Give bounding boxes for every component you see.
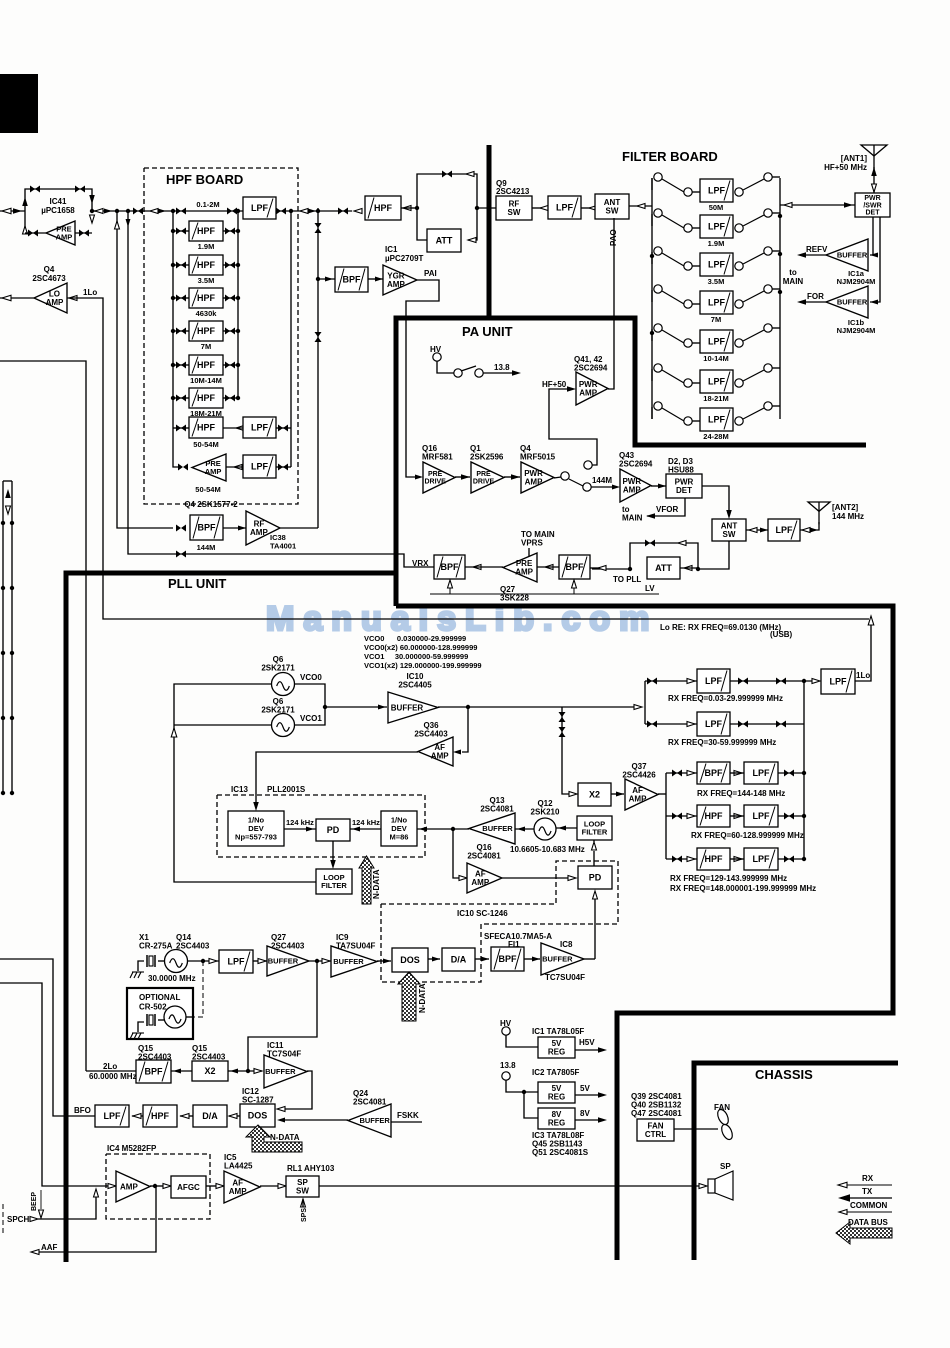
wire Q12 to buffer Q13 xyxy=(515,828,534,830)
label IC13 xyxy=(231,785,248,794)
wire Q16 to PD right xyxy=(502,877,570,879)
label H5V xyxy=(579,1038,595,1047)
junction right rail top xyxy=(236,209,240,213)
buffer IC1b NJM2904M xyxy=(826,286,868,318)
switch contact right-up 24-28M xyxy=(764,402,772,410)
loop filter right xyxy=(577,816,612,840)
svg-text:IC13: IC13 xyxy=(231,785,248,794)
svg-text:DRIVE: DRIVE xyxy=(424,479,446,486)
wire HV to 5VREG xyxy=(506,1035,538,1047)
label D2 D3 HSU88 xyxy=(668,457,694,475)
svg-text:2Lo: 2Lo xyxy=(103,1062,117,1071)
diode row5 a xyxy=(672,856,682,863)
fb left rail dot 1 xyxy=(650,254,654,258)
svg-text:LPF: LPF xyxy=(556,203,574,213)
oscillator Q12 xyxy=(534,818,556,840)
svg-text:(USB): (USB) xyxy=(770,630,793,639)
voltage regulator 8V REG xyxy=(538,1108,575,1129)
open arrow into SPSW xyxy=(278,1184,286,1189)
switch lever left 7M xyxy=(662,291,684,304)
wire ANT1 down xyxy=(873,167,875,193)
open arrow at rail PWRSWR wire xyxy=(784,203,792,208)
wire VPRS tick xyxy=(528,548,530,556)
diode left 1.9M xyxy=(176,228,186,235)
svg-text:AMP: AMP xyxy=(579,389,597,398)
label USB xyxy=(770,630,793,639)
open arrow row4 mid xyxy=(734,814,742,819)
diode ATT bypass xyxy=(442,171,452,178)
wire fb row left 18-21M xyxy=(651,369,653,381)
svg-text:HPF BOARD: HPF BOARD xyxy=(166,172,243,187)
svg-text:AMP: AMP xyxy=(629,795,647,804)
label Q16 MRF581 xyxy=(422,444,453,462)
label legend DATA BUS xyxy=(848,1218,889,1227)
wire IC8 out corner xyxy=(584,958,595,960)
filled arrow into PWR DET xyxy=(658,484,666,489)
label BEEP xyxy=(31,1192,38,1211)
svg-text:N-DATA: N-DATA xyxy=(270,1133,300,1142)
wire X2 to Q37 xyxy=(611,793,624,795)
wire row 10M-14M xyxy=(173,364,189,366)
open arrow row5 mid xyxy=(734,857,742,862)
wire fb row left 10-14M xyxy=(651,329,653,341)
attenuator ATT xyxy=(427,229,461,252)
label 0.1-2M xyxy=(196,200,219,209)
open arrow row5 xyxy=(687,857,695,862)
svg-text:IC8: IC8 xyxy=(560,940,573,949)
wire 13.8 down to 8VREG xyxy=(524,1092,538,1118)
open arrow into IC9 xyxy=(322,959,330,964)
low-pass filter LPF 24-28M xyxy=(700,408,733,431)
label TO PLL xyxy=(613,575,641,584)
PA UNIT boundary xyxy=(396,318,866,606)
open arrow right of ANTSW2 xyxy=(749,528,757,533)
open arrow into PD bottom xyxy=(593,891,598,899)
switch lever right 7M xyxy=(743,291,764,302)
label legend COMMON xyxy=(850,1201,888,1210)
wire DOS to DA ic12 xyxy=(229,1115,240,1117)
wire HF+50 feed xyxy=(549,389,597,465)
pre-amp IC41 xyxy=(46,221,75,245)
open arrow down on IC41 loop right xyxy=(90,215,95,223)
high-pass filter HPF 50-54M xyxy=(189,417,223,438)
svg-text:50-54M: 50-54M xyxy=(195,485,220,494)
wire Q36 out to DEV xyxy=(256,752,418,803)
low-pass filter LPF 1Lo xyxy=(821,669,855,694)
junction rail 3.5M xyxy=(171,263,175,267)
wire DA to FI1 xyxy=(475,958,489,960)
wire Q43 to PWRDET xyxy=(651,485,666,487)
wire row right 4630k xyxy=(223,297,238,299)
svg-text:CR-275A: CR-275A xyxy=(139,942,173,951)
switch contact right-dn 24-28M xyxy=(735,417,743,425)
wire row 4630k xyxy=(173,297,189,299)
svg-text:10M-14M: 10M-14M xyxy=(190,376,222,385)
svg-text:FILTER: FILTER xyxy=(582,828,608,837)
label IC9 TA7SU04F xyxy=(336,933,376,951)
switch lever left 3.5M xyxy=(662,253,684,266)
filled arrow main row in2 xyxy=(158,209,166,214)
svg-text:NJM2904M: NJM2904M xyxy=(837,277,876,286)
buffer Q27 pll xyxy=(267,946,309,976)
svg-text:AMP: AMP xyxy=(120,1182,138,1191)
low-pass filter LPF 18-21M xyxy=(700,370,733,393)
filled arrow into Q36 xyxy=(453,750,461,755)
svg-text:1.9M: 1.9M xyxy=(708,239,725,248)
open arrow into HPF bfo xyxy=(181,1114,189,1119)
svg-text:8V: 8V xyxy=(580,1109,590,1118)
diode before HPF mid xyxy=(338,208,348,215)
open arrow att2 bypass xyxy=(678,541,686,546)
svg-text:VCO0(x2) 60.000000-128.999999: VCO0(x2) 60.000000-128.999999 xyxy=(364,643,477,652)
svg-text:HPF: HPF xyxy=(151,1111,170,1121)
svg-text:MAIN: MAIN xyxy=(622,514,643,523)
svg-text:OPTIONAL: OPTIONAL xyxy=(139,993,180,1002)
svg-text:30.0000 MHz: 30.0000 MHz xyxy=(148,974,196,983)
svg-text:FILTER: FILTER xyxy=(321,881,347,890)
open arrow into LPF bfo xyxy=(133,1114,141,1119)
switch contact left-dn 1.9M xyxy=(684,224,692,232)
svg-text:BPF: BPF xyxy=(705,768,724,778)
label N-DATA ic13 xyxy=(372,869,381,899)
label Q9 2SC4213 xyxy=(496,179,530,196)
open arrow into BPF pll side xyxy=(598,566,606,571)
frequency doubler X2 2Lo xyxy=(192,1061,228,1081)
pre-amp Q27 3SK228 xyxy=(503,553,537,582)
switch contact left-up 7M xyxy=(654,285,662,293)
svg-text:1.9M: 1.9M xyxy=(198,242,215,251)
label IC11 TC7S04F xyxy=(267,1041,301,1059)
svg-text:IC10 SC-1246: IC10 SC-1246 xyxy=(457,909,508,918)
wire 5V out xyxy=(575,1094,600,1096)
pre-amp Q4 2SK1577-2 xyxy=(192,454,226,481)
wire row 18M-21M xyxy=(173,397,189,399)
junction right rail 3.5M xyxy=(236,263,240,267)
junction ref out xyxy=(315,959,319,963)
open arrow into DOS ic12 upper xyxy=(277,1107,285,1112)
switch lever left 1.9M xyxy=(662,215,684,228)
label IC38 TA4001 xyxy=(270,533,296,550)
open arrow up on branch x117 xyxy=(115,221,120,229)
svg-text:7M: 7M xyxy=(201,342,211,351)
wire 13.8 out xyxy=(483,372,514,374)
wire fb row left 24-28M xyxy=(651,407,653,419)
label 144M pa xyxy=(592,476,612,485)
svg-text:2SC4673: 2SC4673 xyxy=(32,274,66,283)
switch contact pa a xyxy=(454,369,462,377)
filled arrow down loop filter 13 xyxy=(330,860,336,869)
open arrow row4 xyxy=(687,814,695,819)
wire LPF out xyxy=(276,210,352,212)
label fb 24-28M xyxy=(703,432,728,441)
diode row2 a xyxy=(647,721,657,728)
svg-text:HPF: HPF xyxy=(197,226,216,236)
open arrow main row in xyxy=(150,209,158,214)
wire Q4 out to relay xyxy=(554,477,561,478)
wire row4 mid xyxy=(730,815,744,817)
filled arrow 13.8 xyxy=(512,370,521,376)
svg-text:LPF: LPF xyxy=(708,260,726,270)
svg-text:N-DATA: N-DATA xyxy=(418,983,427,1013)
band-pass filter BPF vrx xyxy=(434,555,465,579)
wire row4 left xyxy=(666,815,697,817)
filled arrow down on IC41 loop right xyxy=(89,195,95,204)
label 50-54M b xyxy=(195,485,220,494)
filled arrow on main line x106 xyxy=(104,209,112,214)
label fb 18-21M xyxy=(703,394,728,403)
svg-text:Q4: Q4 xyxy=(44,265,55,274)
label Q13 2SC4081 xyxy=(480,796,514,814)
diode left 7M xyxy=(176,328,186,335)
fb right rail dot 1 xyxy=(778,214,782,218)
filled arrow to ANT2 xyxy=(810,528,818,533)
wire Q1 to Q4pa xyxy=(504,476,520,478)
open arrow row3 mid xyxy=(734,771,742,776)
IC10 SC-1246 dashed outline xyxy=(381,861,618,982)
svg-text:2SK210: 2SK210 xyxy=(531,808,560,817)
open arrow into IC4 amp xyxy=(108,1184,116,1189)
left bus dot c1 xyxy=(1,651,5,655)
audio amp IC5 xyxy=(224,1171,260,1203)
buffer IC11 xyxy=(264,1055,307,1088)
wire IC11 out to DOS ic12 xyxy=(283,1071,312,1109)
filled arrow into X2 2Lo xyxy=(230,1069,238,1074)
svg-text:IC1: IC1 xyxy=(385,245,398,254)
label HF+50 MHz xyxy=(824,163,867,172)
svg-text:2SC4403: 2SC4403 xyxy=(192,1053,226,1062)
svg-text:VCO1(x2) 129.000000-199.999999: VCO1(x2) 129.000000-199.999999 xyxy=(364,661,482,670)
low-pass filter LPF 50-54M xyxy=(243,417,276,438)
svg-text:RX FREQ=144-148 MHz: RX FREQ=144-148 MHz xyxy=(697,789,785,798)
svg-text:10.6605-10.683 MHz: 10.6605-10.683 MHz xyxy=(510,845,585,854)
fan controller FAN CTRL xyxy=(637,1119,674,1141)
terminal 13.8 reg xyxy=(502,1072,510,1080)
svg-text:LPF: LPF xyxy=(708,415,726,425)
svg-text:HPF: HPF xyxy=(197,423,216,433)
svg-text:FOR: FOR xyxy=(807,292,824,301)
svg-text:CHASSIS: CHASSIS xyxy=(755,1067,813,1082)
label 60.0000 MHz xyxy=(89,1072,137,1081)
switch contact right-dn 10-14M xyxy=(735,339,743,347)
label AAF xyxy=(41,1243,58,1252)
label RX FREQ row1 xyxy=(668,694,783,703)
antenna switch ANT SW pa xyxy=(712,519,746,541)
legend COMMON arrow xyxy=(839,1210,847,1215)
label Q15 2SC4403 a xyxy=(138,1044,172,1062)
label IC1 TA78L05F xyxy=(532,1027,584,1036)
wire row right 7M xyxy=(223,330,238,332)
junction x318 BPF feed xyxy=(316,277,320,281)
wire att2 right link xyxy=(680,567,698,569)
buffer IC8 xyxy=(541,943,584,975)
wire HV to switch xyxy=(437,361,454,373)
label 1Lo out xyxy=(856,671,870,680)
oscillator VCO1 Q6 xyxy=(272,714,295,737)
junction rail 1.9M xyxy=(171,229,175,233)
switch contact left-up 10-14M xyxy=(654,324,662,332)
junction main x128 xyxy=(126,209,130,213)
open arrow into LO amp input xyxy=(69,296,77,301)
svg-text:TC7SU04F: TC7SU04F xyxy=(545,973,585,982)
wire LO amp out to page edge xyxy=(0,297,34,299)
svg-text:IC41: IC41 xyxy=(50,197,67,206)
diode row5 b xyxy=(784,856,794,863)
switch contact pa b xyxy=(475,369,483,377)
wire AAF from AFGC junction xyxy=(39,1186,156,1252)
IC13 PLL2001S dashed outline xyxy=(217,795,425,857)
svg-text:LPF: LPF xyxy=(776,525,794,535)
open arrow into IC11 buffer xyxy=(254,1069,262,1074)
switch contact right-dn 3.5M xyxy=(735,262,743,270)
label IC1b NJM2904M xyxy=(837,318,876,335)
open arrow into ATT pa xyxy=(684,566,692,571)
svg-text:LPF: LPF xyxy=(251,462,269,472)
svg-text:4630k: 4630k xyxy=(196,309,218,318)
switch contact right-up 50M xyxy=(764,173,772,181)
power-SWR detector PWR/SWR DET xyxy=(855,193,890,217)
wire junction to thick border xyxy=(477,207,496,209)
svg-text:BUFFER: BUFFER xyxy=(265,1067,296,1076)
label IC1a NJM2904M xyxy=(837,269,876,286)
svg-text:SW: SW xyxy=(296,1187,309,1196)
label IC41 uPC1658 xyxy=(41,197,75,215)
open arrow before HPF mid xyxy=(354,209,362,214)
switch contact right-dn 50M xyxy=(735,188,743,196)
open arrow after HPF mid xyxy=(403,206,411,211)
wire fb row right 24-28M xyxy=(772,405,780,407)
svg-text:D/A: D/A xyxy=(202,1111,218,1121)
wire X1 out xyxy=(188,960,219,962)
filled arrow into PD13 right xyxy=(352,827,360,832)
svg-text:LPF: LPF xyxy=(251,203,269,213)
terminal HV reg xyxy=(502,1027,510,1035)
power amp Q4 MRF5015 xyxy=(521,462,554,493)
fb right rail dot 2 xyxy=(778,252,782,256)
svg-text:HPF: HPF xyxy=(374,203,393,213)
label VCO0 xyxy=(300,673,322,682)
svg-text:BUFFER: BUFFER xyxy=(268,957,299,966)
wire to X2 riser xyxy=(562,707,570,794)
switch contact left-up 18-21M xyxy=(654,364,662,372)
ground CR-502 xyxy=(130,1033,144,1039)
open arrow after board xyxy=(300,209,308,214)
label FILTER BOARD xyxy=(622,149,718,164)
wire BEEP underline xyxy=(40,1190,42,1209)
legend RX arrow xyxy=(838,1182,847,1188)
switch lever right 3.5M xyxy=(743,253,764,264)
svg-text:LPF: LPF xyxy=(705,676,723,686)
amp AF Q36 xyxy=(418,737,453,766)
svg-text:SP: SP xyxy=(720,1162,731,1171)
wire BPF to RF amp xyxy=(223,527,246,529)
svg-text:VCO0: VCO0 xyxy=(300,673,322,682)
diode row3 a xyxy=(672,770,682,777)
switch contact right-up 10-14M xyxy=(764,324,772,332)
switch lever pa xyxy=(461,366,476,371)
wire PRE AMP row left xyxy=(25,232,46,234)
svg-text:PAI: PAI xyxy=(424,269,437,278)
svg-text:TA4001: TA4001 xyxy=(270,541,296,550)
wire VCO to buffer IC10 xyxy=(325,706,387,708)
svg-text:2SC4081: 2SC4081 xyxy=(480,805,514,814)
filled arrow into Q43 xyxy=(612,485,620,490)
N-DATA bus arrow into DOS pll xyxy=(398,972,420,1021)
filled arrow FOR xyxy=(797,299,806,305)
svg-text:AMP: AMP xyxy=(56,233,73,242)
wire ref from Q27 buffer down xyxy=(248,961,317,1071)
svg-text:AAF: AAF xyxy=(41,1243,58,1252)
switch contact right-up 18-21M xyxy=(764,364,772,372)
svg-text:DOS: DOS xyxy=(400,955,420,965)
svg-text:124 kHz: 124 kHz xyxy=(286,818,314,827)
open arrow into speaker xyxy=(699,1184,707,1189)
svg-text:RL1 AHY103: RL1 AHY103 xyxy=(287,1164,335,1173)
wire row 50-54M left xyxy=(173,427,189,429)
high-pass filter HPF mid xyxy=(365,196,401,220)
ground X1 xyxy=(130,972,144,978)
junction VCO out xyxy=(323,705,327,709)
wire row5 right xyxy=(778,858,804,860)
band-pass filter BPF ygr xyxy=(335,267,368,292)
diode row2 b xyxy=(738,721,748,728)
svg-text:DET: DET xyxy=(676,486,692,495)
svg-text:H5V: H5V xyxy=(579,1038,595,1047)
open arrow into preamp27 xyxy=(545,565,553,570)
label Q43 2SC2694 xyxy=(619,451,653,469)
label IC10 SC-1246 xyxy=(457,909,508,918)
svg-text:Np=557-793: Np=557-793 xyxy=(235,833,277,842)
junction rail 7M xyxy=(171,329,175,333)
label Q6 2SK2171 b xyxy=(261,697,295,715)
PLL UNIT boundary right-bottom xyxy=(396,606,893,1260)
label HV reg xyxy=(500,1019,512,1028)
legend COMMON line xyxy=(846,1211,892,1213)
svg-text:BPF: BPF xyxy=(145,1067,164,1077)
label 7M xyxy=(201,342,211,351)
label 124 kHz a xyxy=(286,818,314,827)
switch lever right 1.9M xyxy=(743,215,764,226)
label Q27 3SK228 xyxy=(500,585,529,603)
svg-text:PD: PD xyxy=(327,825,340,835)
open arrow up join amp input xyxy=(94,1189,99,1197)
left bus outer xyxy=(2,481,4,793)
open arrow into ANTSW xyxy=(637,204,645,209)
svg-text:HF+50: HF+50 xyxy=(542,380,567,389)
svg-text:LPF: LPF xyxy=(753,811,771,821)
band-pass filter BPF pll side xyxy=(559,555,590,579)
junction ATT loop left xyxy=(415,206,419,210)
label PLL UNIT xyxy=(168,576,226,591)
switch contact left-dn 24-28M xyxy=(684,417,692,425)
voltage regulator 5V REG xyxy=(538,1082,575,1103)
low-pass filter LPF 1.9M fb xyxy=(700,215,733,238)
label CHASSIS xyxy=(755,1067,813,1082)
low-pass filter row2 xyxy=(697,712,730,736)
switch contact left-up 24-28M xyxy=(654,402,662,410)
svg-text:AMP: AMP xyxy=(623,486,641,495)
wire X2 to BPF 2Lo xyxy=(171,1070,192,1072)
svg-text:LPF: LPF xyxy=(104,1111,122,1121)
open arrow into PD right xyxy=(568,876,576,881)
HPF board left rail xyxy=(173,211,178,467)
label Q24 2SC4081 xyxy=(353,1089,387,1107)
label to MAIN pa xyxy=(622,505,643,523)
open arrow row3 xyxy=(687,771,695,776)
svg-text:PD: PD xyxy=(589,873,602,883)
svg-text:18-21M: 18-21M xyxy=(703,394,728,403)
wire FANCTRL to fan xyxy=(674,1128,718,1130)
svg-text:PRE: PRE xyxy=(428,471,443,478)
